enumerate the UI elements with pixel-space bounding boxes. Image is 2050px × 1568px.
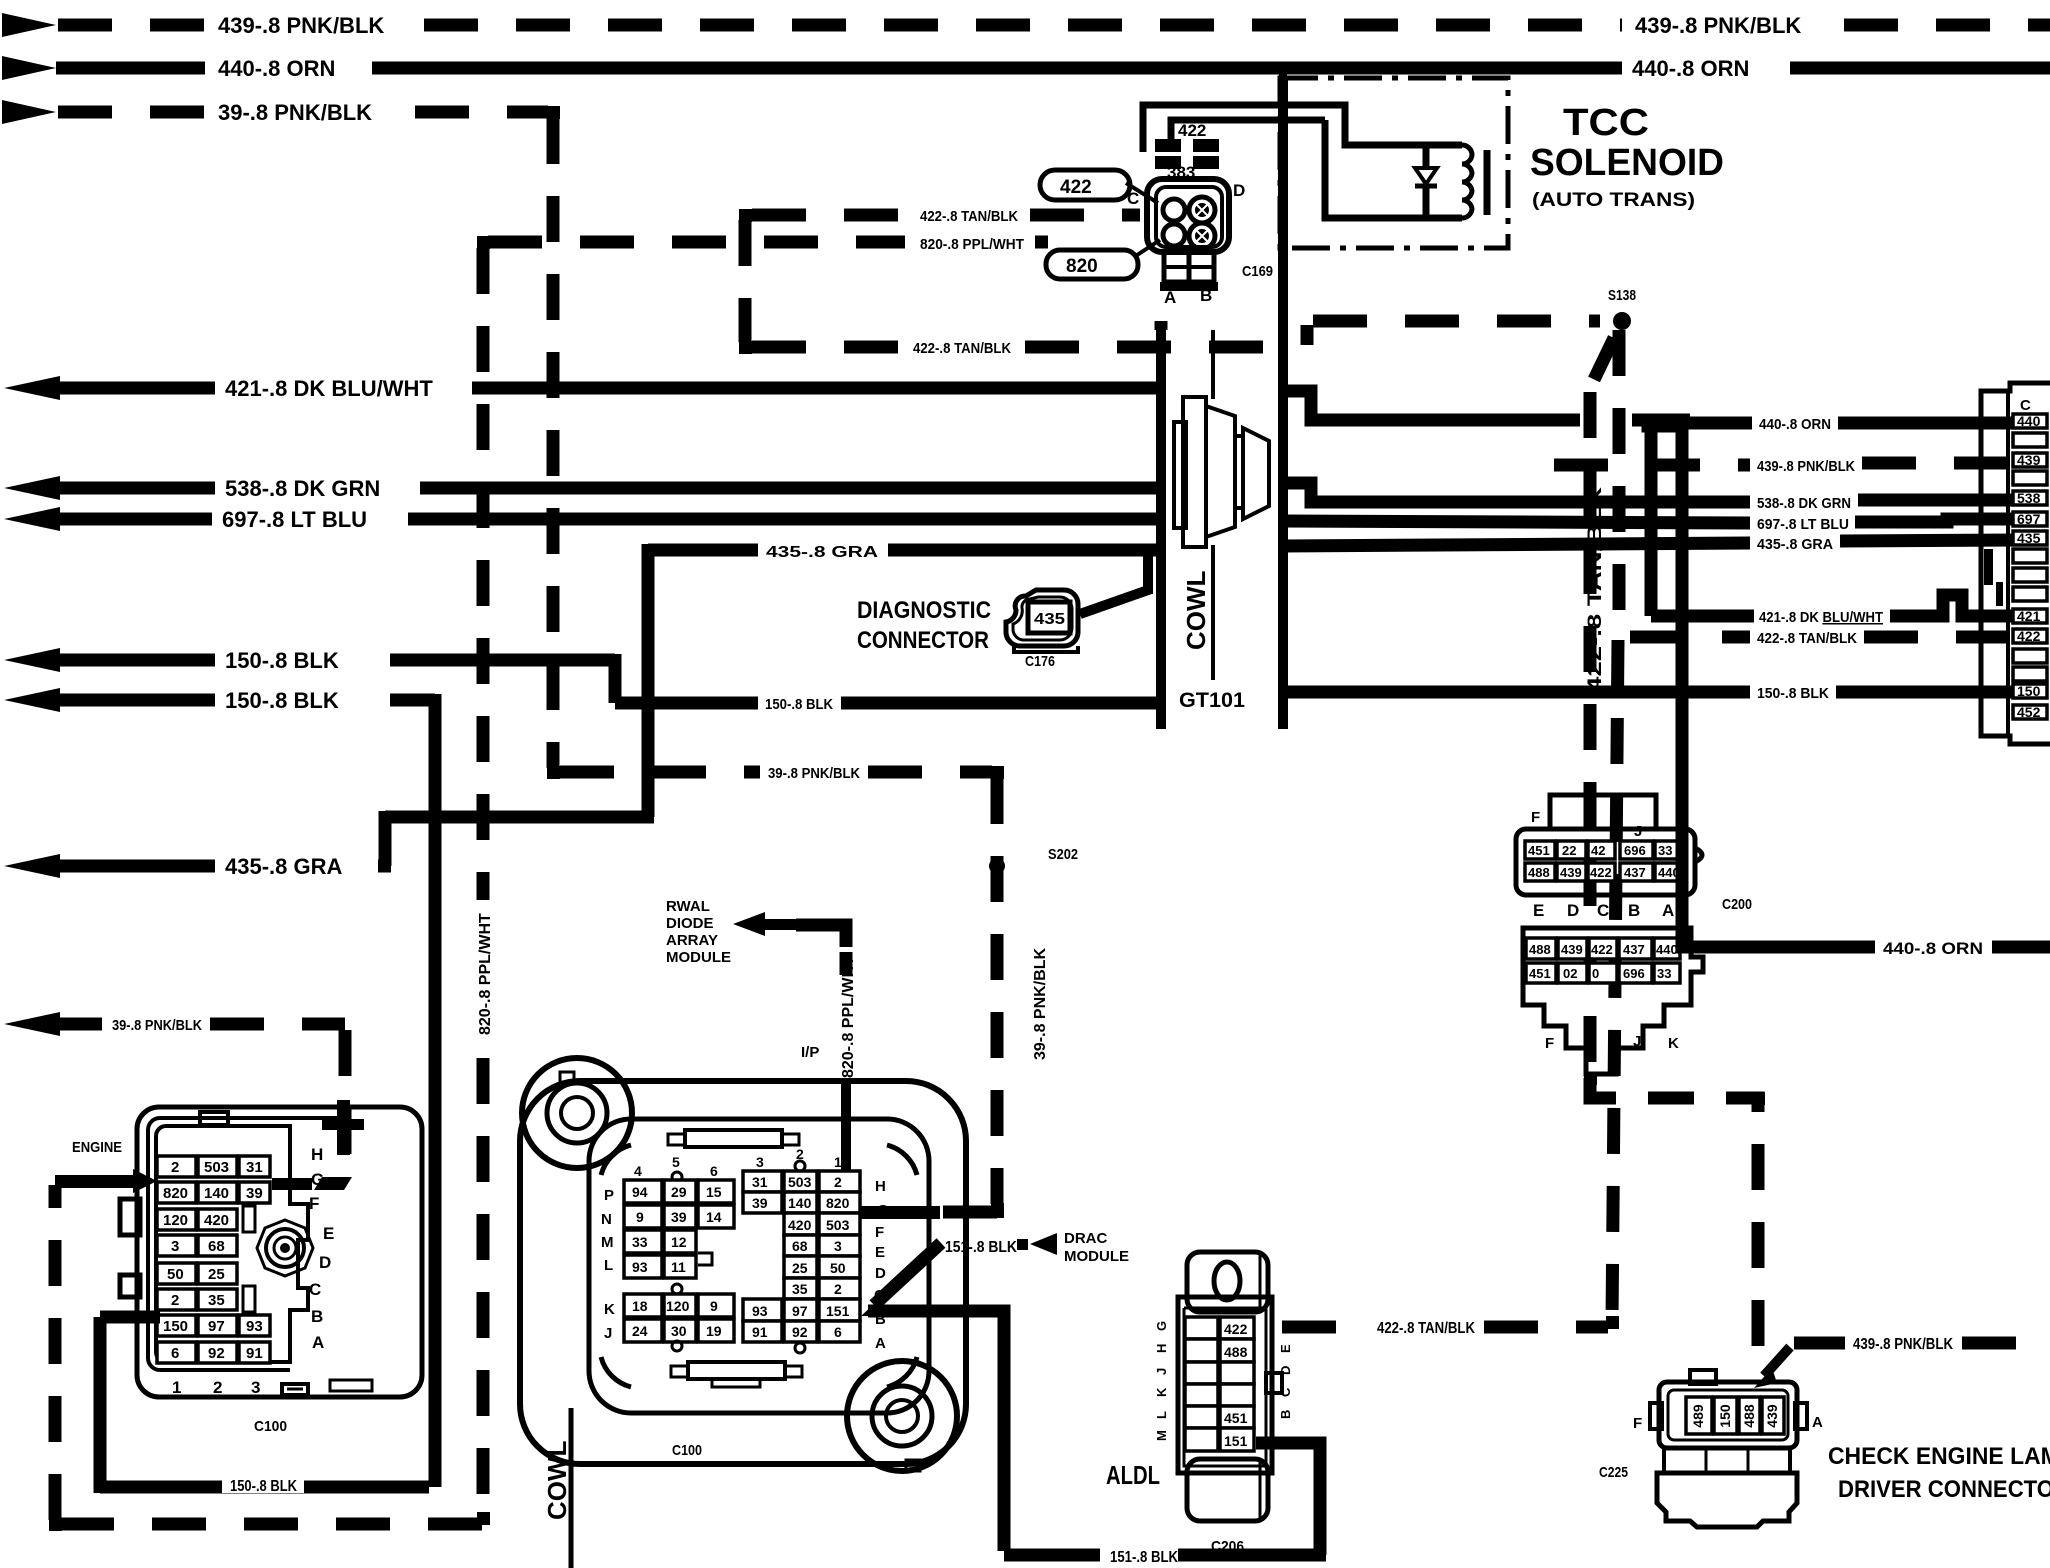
svg-text:420: 420 [204,1212,229,1229]
svg-text:J: J [1154,1368,1169,1375]
wire 422 TAN/BLK corner drop at x=745 [739,220,752,342]
svg-text:C206: C206 [1211,1538,1244,1555]
svg-text:5: 5 [672,1154,680,1170]
svg-text:439-.8 PNK/BLK: 439-.8 PNK/BLK [1757,458,1855,475]
svg-text:COWL: COWL [542,1440,572,1520]
svg-text:F: F [1545,1035,1554,1052]
svg-text:422-.8 TAN/BLK: 422-.8 TAN/BLK [913,340,1011,357]
svg-text:820-.8 PPL/WHT: 820-.8 PPL/WHT [477,913,494,1035]
svg-text:ARRAY: ARRAY [666,932,718,949]
svg-text:E: E [323,1224,334,1243]
svg-text:97: 97 [208,1318,225,1335]
wire 39-.8 PNK/BLK top [2,100,548,125]
svg-text:33: 33 [1658,843,1672,858]
RWAL diode array module label [666,898,798,966]
svg-text:39-.8 PNK/BLK: 39-.8 PNK/BLK [112,1017,202,1034]
svg-text:440-.8 ORN: 440-.8 ORN [1759,416,1831,433]
svg-text:68: 68 [208,1238,225,1255]
connector C169 [1127,105,1325,307]
svg-text:C200: C200 [1722,896,1752,913]
cowl boundary line [1211,330,1215,680]
wire 151 BLK to ALDL [868,1311,1326,1566]
svg-text:50: 50 [167,1266,184,1283]
svg-text:F: F [1633,1415,1642,1432]
svg-text:439: 439 [2017,452,2041,468]
TCC solenoid internal circuit [1282,105,1487,218]
svg-text:150-.8 BLK: 150-.8 BLK [225,648,339,673]
svg-text:437: 437 [1624,865,1646,880]
wire 421 DK BLU/WHT right run [1651,420,2016,626]
svg-text:422: 422 [1060,177,1092,198]
wire 422 TAN/BLK right run [1630,630,2016,647]
wire 820 PPL/WHT I/P drop [796,925,858,1192]
svg-text:SOLENOID: SOLENOID [1530,142,1724,184]
svg-text:J: J [1634,823,1642,840]
svg-text:697: 697 [2017,511,2041,527]
svg-text:2: 2 [834,1281,842,1297]
svg-text:150: 150 [163,1318,188,1335]
svg-text:820: 820 [1066,256,1098,277]
svg-text:439-.8 PNK/BLK: 439-.8 PNK/BLK [218,13,384,38]
wire 150-.8 BLK second left [4,688,435,713]
svg-text:E: E [875,1244,885,1261]
svg-text:440-.8 ORN: 440-.8 ORN [218,56,335,81]
svg-text:439-.8 PNK/BLK: 439-.8 PNK/BLK [1853,1336,1953,1353]
svg-text:488: 488 [1528,865,1550,880]
svg-text:25: 25 [208,1266,225,1283]
svg-text:33: 33 [632,1234,648,1250]
svg-text:9: 9 [710,1298,718,1314]
svg-text:GT101: GT101 [1179,689,1245,712]
svg-text:538: 538 [2017,490,2041,506]
svg-text:H: H [311,1145,323,1164]
wire 435 GRA loop to left [385,544,654,866]
C100 I/P left pin grid PNML [601,1154,734,1278]
svg-text:A: A [1164,288,1176,307]
svg-text:151: 151 [826,1303,850,1319]
svg-text:D: D [1233,181,1245,200]
svg-text:39-.8 PNK/BLK: 39-.8 PNK/BLK [768,765,860,782]
svg-text:18: 18 [632,1298,648,1314]
svg-text:42: 42 [1591,843,1605,858]
svg-text:503: 503 [204,1159,229,1176]
svg-text:H: H [1154,1344,1169,1353]
svg-text:39-.8 PNK/BLK: 39-.8 PNK/BLK [1032,948,1049,1060]
svg-text:(AUTO TRANS): (AUTO TRANS) [1532,190,1695,211]
svg-text:D: D [875,1265,886,1282]
svg-text:19: 19 [706,1323,722,1339]
svg-text:0: 0 [1592,966,1599,981]
svg-text:4: 4 [634,1163,642,1179]
svg-text:12: 12 [671,1234,687,1250]
svg-text:150-.8 BLK: 150-.8 BLK [765,696,833,713]
svg-text:D: D [319,1253,331,1272]
wire 440 ORN drop to C200 [1676,420,1689,941]
svg-text:B: B [1628,901,1640,920]
svg-text:2: 2 [834,1174,842,1190]
svg-text:435-.8 GRA: 435-.8 GRA [1757,536,1833,553]
svg-text:440-.8 ORN: 440-.8 ORN [1632,56,1749,81]
svg-text:J: J [604,1325,612,1342]
svg-text:DIODE: DIODE [666,915,714,932]
wire 538-.8 DK GRN left [4,476,1161,501]
wire 39 PNK/BLK right vertical to I/P [989,778,1005,1204]
svg-text:39: 39 [246,1185,263,1202]
svg-text:92: 92 [792,1324,808,1340]
svg-text:439: 439 [1560,865,1582,880]
svg-text:820: 820 [826,1195,850,1211]
svg-text:6: 6 [710,1163,718,1179]
svg-text:35: 35 [208,1292,225,1309]
wire 439 PNK/BLK diagonal arrow into C225 [1754,1347,1790,1388]
svg-text:422: 422 [1591,942,1613,957]
svg-text:440: 440 [1656,942,1678,957]
wire 39 PNK/BLK mid dashed run [560,765,992,782]
svg-text:C176: C176 [1025,653,1055,670]
svg-text:K: K [1668,1035,1679,1052]
svg-text:D: D [1567,901,1579,920]
wire 440-.8 ORN top [2,56,2050,81]
TCC solenoid box (AUTO TRANS) [1280,62,1508,248]
connector C200 lower half [1523,928,1703,1074]
svg-text:CONNECTOR: CONNECTOR [857,627,989,654]
svg-text:G: G [311,1170,324,1189]
wire 820 PPL/WHT long vertical x=483 [477,248,490,1516]
svg-text:C225: C225 [1599,1464,1628,1481]
svg-text:I/P: I/P [801,1044,819,1061]
svg-text:DIAGNOSTIC: DIAGNOSTIC [857,597,991,624]
dashed corner fills [49,106,1765,1531]
svg-text:421: 421 [2017,608,2041,624]
svg-text:H: H [875,1178,886,1195]
svg-text:33: 33 [1657,966,1671,981]
svg-text:2: 2 [171,1292,179,1309]
wire 421-.8 DK BLU/WHT left [4,376,1161,401]
svg-text:151-.8 BLK: 151-.8 BLK [945,1239,1017,1256]
svg-text:420: 420 [788,1217,812,1233]
cowl wire bundle right [1278,78,1288,729]
svg-text:440: 440 [2017,413,2041,429]
svg-text:6: 6 [171,1345,179,1362]
svg-text:489: 489 [1690,1404,1706,1428]
svg-text:S138: S138 [1608,287,1636,304]
svg-text:150-.8 BLK: 150-.8 BLK [230,1478,297,1495]
svg-text:439: 439 [1764,1404,1780,1428]
connector C206 ALDL body [1178,1297,1282,1473]
wire 820-.8 PPL/WHT upper [488,236,1048,253]
svg-text:1: 1 [834,1154,842,1170]
422 flag label at C169 [1040,170,1158,203]
svg-text:93: 93 [752,1303,768,1319]
svg-text:P: P [604,1187,614,1204]
svg-text:451: 451 [1529,966,1551,981]
svg-text:97: 97 [792,1303,808,1319]
svg-text:C: C [1597,901,1609,920]
svg-text:3: 3 [834,1238,842,1254]
svg-text:MODULE: MODULE [666,949,731,966]
svg-text:DRIVER CONNECTOR: DRIVER CONNECTOR [1838,1476,2050,1503]
CHECK ENGINE LAMP DRIVER CONNECTOR label [1828,1443,2050,1503]
grommet GT101 [1174,397,1269,547]
svg-text:G: G [1154,1321,1169,1331]
svg-text:422-.8 TAN/BLK: 422-.8 TAN/BLK [1377,1320,1475,1337]
wire 435-.8 GRA left arrow [4,854,391,879]
svg-text:C169: C169 [1242,263,1273,280]
svg-text:696: 696 [1623,966,1645,981]
svg-text:31: 31 [246,1159,263,1176]
svg-text:J: J [1633,1033,1641,1050]
wire 820 PPL/WHT bottom loop [55,1169,483,1524]
svg-text:435: 435 [2017,530,2041,546]
wire 440 ORN right run [1283,391,2016,433]
wire 39-.8 PNK/BLK left arrow [4,1012,345,1036]
wire 422 TAN/BLK from ALDL [1282,1320,1608,1337]
svg-text:150-.8 BLK: 150-.8 BLK [1757,685,1829,702]
svg-text:2: 2 [171,1159,179,1176]
svg-text:31: 31 [752,1174,768,1190]
svg-text:3: 3 [251,1378,260,1397]
820 flag label at C169 [1046,240,1160,279]
splice S138 [1608,287,1636,330]
wire 697-.8 LT BLU left [4,507,1161,532]
svg-text:F: F [1531,809,1540,826]
svg-text:140: 140 [788,1195,812,1211]
wire 39 PNK/BLK drop to ENGINE pin [272,1030,352,1190]
svg-text:422: 422 [1178,121,1206,140]
svg-text:S202: S202 [1048,846,1078,863]
C200 letters E D C B A [1533,896,1752,920]
svg-text:ENGINE: ENGINE [72,1139,122,1156]
svg-text:488: 488 [1224,1344,1248,1360]
svg-text:488: 488 [1529,942,1551,957]
svg-text:B: B [311,1307,323,1326]
svg-text:538-.8 DK GRN: 538-.8 DK GRN [1757,495,1851,512]
wire 538 DK GRN right run [1283,483,2016,512]
C100 engine pin grid [157,1156,270,1363]
svg-text:696: 696 [1624,843,1646,858]
svg-text:503: 503 [826,1217,850,1233]
svg-text:422-.8 TAN/BLK: 422-.8 TAN/BLK [920,208,1018,225]
svg-text:K: K [604,1301,615,1318]
TCC SOLENOID label [1530,102,1724,211]
wire 439 PNK/BLK right run [1554,458,2016,475]
svg-text:22: 22 [1562,843,1576,858]
wire 439-.8 PNK/BLK top [2,13,2050,38]
svg-text:MODULE: MODULE [1064,1248,1129,1265]
C100 engine letters [309,1145,334,1352]
svg-text:A: A [875,1335,886,1352]
wire 150 BLK bottom into ENGINE C100 [100,1317,429,1495]
svg-text:C: C [309,1280,321,1299]
svg-text:150-.8 BLK: 150-.8 BLK [225,688,339,713]
151-.8 BLK label with DRAC module arrow [945,1230,1129,1265]
connector C100 (I/P side) body [520,1058,966,1471]
svg-text:93: 93 [246,1318,263,1335]
svg-text:91: 91 [752,1324,768,1340]
wire 435 GRA right run [1283,536,2016,553]
svg-text:451: 451 [1528,843,1550,858]
svg-text:CHECK ENGINE LAMP: CHECK ENGINE LAMP [1828,1443,2050,1470]
svg-text:A: A [1662,901,1674,920]
svg-text:120: 120 [666,1298,690,1314]
svg-text:91: 91 [246,1345,263,1362]
wire 439 PNK/BLK vertical S138 to C225 [1588,338,1758,1355]
svg-text:39: 39 [752,1195,768,1211]
svg-text:K: K [1154,1387,1169,1397]
svg-text:94: 94 [632,1184,648,1200]
svg-text:120: 120 [163,1212,188,1229]
wire 422 TAN/BLK to splice S138 [1313,315,1600,328]
svg-text:TCC: TCC [1563,102,1649,144]
svg-text:E: E [1533,901,1544,920]
svg-text:35: 35 [792,1281,808,1297]
C100 I/P right pin grid [743,1146,860,1353]
svg-text:452: 452 [2017,704,2041,720]
C100 engine bullseye [257,1220,313,1276]
svg-text:439: 439 [1561,942,1583,957]
svg-text:150: 150 [2017,683,2041,699]
svg-text:421-.8 DK BLU/WHT: 421-.8 DK BLU/WHT [225,376,433,401]
svg-text:F: F [875,1224,884,1241]
svg-text:14: 14 [706,1209,722,1225]
svg-text:422: 422 [1224,1321,1248,1337]
diagnostic connector C176 [857,552,1151,670]
svg-text:11: 11 [671,1259,686,1275]
svg-text:25: 25 [792,1260,808,1276]
svg-text:697-.8 LT BLU: 697-.8 LT BLU [222,507,367,532]
svg-text:150: 150 [1717,1404,1733,1428]
svg-text:140: 140 [204,1185,229,1202]
connector C206 ALDL top tab [1187,1252,1268,1312]
svg-text:439-.8 PNK/BLK: 439-.8 PNK/BLK [1635,13,1801,38]
wire 439-.8 PNK/BLK bottom right [1794,1336,2050,1353]
connector C206 ALDL bottom tab [1187,1459,1268,1521]
svg-text:697-.8 LT BLU: 697-.8 LT BLU [1757,516,1849,533]
svg-text:3: 3 [171,1238,179,1255]
svg-text:C: C [2020,397,2031,414]
svg-text:M: M [601,1234,614,1251]
wire 422-.8 TAN/BLK upper (C169 pin C) [752,208,1140,225]
wire 422 TAN/BLK stub above cowl [1155,321,1168,330]
svg-text:A: A [1812,1414,1823,1431]
svg-text:437: 437 [1623,942,1645,957]
svg-text:422: 422 [2017,628,2041,644]
svg-text:151-.8 BLK: 151-.8 BLK [1110,1549,1178,1566]
COWL line bottom [542,1408,572,1568]
svg-text:435: 435 [1034,611,1065,628]
svg-text:93: 93 [632,1259,648,1275]
C100 I/P letters HGFEDCBA [874,1178,889,1352]
connector C100 (ENGINE side) body [72,1100,422,1435]
svg-text:820-.8 PPL/WHT: 820-.8 PPL/WHT [920,236,1024,253]
svg-text:15: 15 [706,1184,722,1200]
wire 39 PNK/BLK arrow into I/P C100 [826,1202,997,1222]
svg-text:422: 422 [1590,865,1612,880]
svg-text:50: 50 [830,1260,846,1276]
svg-text:435-.8 GRA: 435-.8 GRA [766,544,879,561]
svg-text:422-.8 TAN/BLK: 422-.8 TAN/BLK [1757,630,1857,647]
svg-text:151: 151 [1224,1433,1248,1449]
svg-text:C: C [1278,1387,1293,1397]
svg-text:M: M [1154,1430,1169,1441]
svg-text:68: 68 [792,1238,808,1254]
svg-text:1: 1 [172,1378,181,1397]
svg-text:9: 9 [636,1209,644,1225]
svg-text:488: 488 [1741,1404,1757,1428]
svg-text:D: D [1278,1366,1293,1375]
svg-text:DRAC: DRAC [1064,1230,1107,1247]
svg-text:G: G [877,1202,889,1219]
svg-text:COWL: COWL [1181,570,1211,650]
svg-text:421-.8 DK BLU/WHT: 421-.8 DK BLU/WHT [1759,609,1883,626]
svg-text:39-.8 PNK/BLK: 39-.8 PNK/BLK [218,100,372,125]
wire 150-.8 BLK first left [4,648,1161,713]
svg-text:451: 451 [1224,1410,1248,1426]
svg-text:B: B [1200,286,1212,305]
svg-text:N: N [601,1211,612,1228]
svg-text:820-.8 PPL/WHT: 820-.8 PPL/WHT [840,956,857,1078]
C100 I/P left pin grid KJ [604,1284,734,1351]
cowl wire bundle left [1156,321,1166,729]
connector C200 upper half [1516,795,1702,895]
wire 435-.8 GRA mid run [648,544,1161,561]
wire 150 BLK long vertical x=435 [429,694,442,1487]
svg-text:39: 39 [671,1209,687,1225]
connector C225 [1599,1370,1823,1527]
svg-text:C100: C100 [672,1442,702,1459]
svg-text:92: 92 [208,1345,225,1362]
svg-text:820: 820 [163,1185,188,1202]
wire 150 BLK right run [1283,685,2016,702]
svg-text:3: 3 [756,1154,764,1170]
svg-text:A: A [312,1333,324,1352]
svg-text:B: B [1278,1410,1293,1419]
svg-text:6: 6 [834,1324,842,1340]
svg-text:02: 02 [1563,966,1577,981]
svg-text:29: 29 [671,1184,687,1200]
svg-text:C100: C100 [254,1418,287,1435]
svg-text:RWAL: RWAL [666,898,710,915]
wire 697 LT BLU right run [1283,516,2016,533]
right connector pin boxes [2013,413,2047,720]
wire 151 BLK diagonal with arrow [861,1243,941,1316]
svg-text:2: 2 [213,1378,222,1397]
svg-text:503: 503 [788,1174,812,1190]
wire 422 TAN/BLK vertical S138 to ALDL [1612,330,1619,1322]
wire 422-.8 TAN/BLK lower run [752,325,1307,357]
svg-text:L: L [604,1257,613,1274]
right bulkhead connector body [1981,383,2050,744]
ALDL pin letters [1154,1321,1293,1441]
svg-text:F: F [309,1194,319,1213]
svg-text:ALDL: ALDL [1106,1460,1160,1490]
svg-text:538-.8 DK GRN: 538-.8 DK GRN [225,476,380,501]
svg-text:24: 24 [632,1323,648,1339]
wire 39 PNK/BLK vertical drop [547,118,560,768]
svg-text:L: L [1154,1411,1169,1419]
svg-text:440-.8 ORN: 440-.8 ORN [1883,939,1983,958]
wire 440-.8 ORN from C200 to right [1682,939,2050,958]
svg-text:435-.8 GRA: 435-.8 GRA [225,854,342,879]
svg-text:30: 30 [671,1323,687,1339]
svg-text:E: E [1278,1344,1293,1353]
